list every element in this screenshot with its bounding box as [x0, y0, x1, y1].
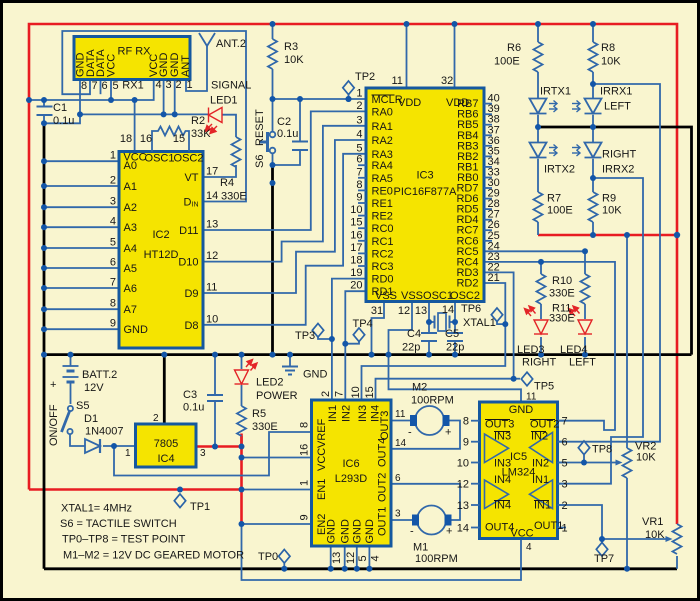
- resistor R10 330E: [581, 274, 590, 304]
- wire: VSS pin12 to ground: [389, 302, 413, 355]
- svg-text:C2: C2: [277, 116, 291, 128]
- svg-text:XTAL1: XTAL1: [463, 317, 496, 329]
- wire: M2 to OUT4: [391, 421, 460, 449]
- svg-text:8: 8: [356, 179, 362, 191]
- wire: TP8 stub: [583, 455, 585, 463]
- svg-text:A1: A1: [124, 181, 137, 193]
- svg-text:IRTX2: IRTX2: [544, 164, 575, 176]
- svg-text:IN3: IN3: [494, 431, 511, 443]
- svg-text:TP4: TP4: [353, 318, 373, 330]
- svg-text:A0: A0: [124, 160, 137, 172]
- svg-text:12: 12: [345, 552, 357, 564]
- svg-text:R8: R8: [601, 42, 615, 54]
- svg-text:ANT: ANT: [180, 55, 192, 77]
- svg-text:22p: 22p: [446, 342, 464, 354]
- wire: RX pin3 GND stub: [163, 80, 165, 115]
- svg-text:R3: R3: [284, 41, 298, 53]
- svg-text:A3: A3: [124, 222, 137, 234]
- IC5 overlines: [485, 420, 555, 501]
- LED LED2 power: [235, 360, 258, 385]
- svg-text:20: 20: [350, 280, 362, 292]
- svg-text:LED4: LED4: [560, 344, 588, 356]
- svg-text:1: 1: [186, 79, 192, 91]
- svg-text:IC5: IC5: [510, 451, 527, 463]
- svg-text:15: 15: [173, 133, 185, 145]
- svg-text:11: 11: [206, 282, 217, 294]
- svg-text:VR1: VR1: [642, 516, 663, 528]
- svg-text:LEFT: LEFT: [569, 357, 596, 369]
- svg-text:OUT4: OUT4: [377, 438, 389, 467]
- wire: TP2 stub: [348, 94, 350, 99]
- svg-text:L293D: L293D: [335, 473, 367, 485]
- svg-text:RC2: RC2: [372, 248, 394, 260]
- wire: R11 bottom to LED3: [540, 304, 542, 319]
- svg-text:TP2: TP2: [355, 71, 375, 83]
- wire: IRRX2 output to LM324 IN1+: [558, 178, 644, 484]
- wire: IRTX1 to IRTX2: [537, 115, 539, 143]
- svg-text:4: 4: [370, 555, 382, 561]
- svg-text:11: 11: [392, 75, 403, 87]
- svg-text:RESET: RESET: [254, 109, 266, 146]
- svg-text:GND: GND: [340, 519, 352, 544]
- svg-text:100RPM: 100RPM: [415, 553, 458, 565]
- wire: D1 cathode to 7805 pin1: [103, 445, 136, 447]
- svg-text:9: 9: [356, 192, 362, 204]
- IC3 bottom pin names: [375, 290, 480, 302]
- switch S6 reset tactile: [270, 132, 276, 138]
- wire: RX pin1 to antenna: [186, 46, 207, 91]
- resistor R5 330E: [237, 406, 246, 436]
- svg-text:10: 10: [350, 204, 362, 216]
- resistor R6 100E: [534, 42, 543, 72]
- IC6 bottom GND names rotated: [326, 519, 377, 544]
- svg-text:2: 2: [562, 500, 568, 512]
- wire: RD1 to L293D IN2: [345, 291, 366, 400]
- svg-text:31: 31: [371, 305, 383, 317]
- svg-text:A6: A6: [124, 283, 137, 295]
- test point TP5: [521, 372, 532, 386]
- svg-text:S6: S6: [254, 155, 266, 168]
- svg-text:A5: A5: [124, 263, 137, 275]
- svg-text:M1–M2 = 12V DC GEARED MOTOR: M1–M2 = 12V DC GEARED MOTOR: [63, 550, 244, 562]
- svg-text:ANT.2: ANT.2: [216, 38, 246, 50]
- svg-text:3: 3: [562, 479, 568, 491]
- svg-text:VSS: VSS: [401, 290, 423, 302]
- svg-text:13: 13: [206, 219, 218, 231]
- svg-text:16: 16: [299, 444, 311, 456]
- wire: RX pin6 data stub: [100, 80, 102, 95]
- svg-text:IC2: IC2: [152, 229, 169, 241]
- svg-text:100E: 100E: [547, 205, 573, 217]
- svg-text:LED1: LED1: [210, 95, 238, 107]
- svg-text:R2: R2: [191, 115, 205, 127]
- svg-text:15: 15: [364, 386, 376, 398]
- wire: R8 top lead: [592, 24, 594, 42]
- svg-text:7: 7: [91, 80, 97, 92]
- svg-text:R10: R10: [552, 275, 572, 287]
- node: regulator output line: [212, 444, 218, 450]
- IC6 top pin names rotated: [327, 405, 382, 422]
- wire: VSS pin31 to ground: [372, 302, 385, 355]
- svg-text:14: 14: [395, 438, 407, 449]
- wire: OUT3 to motor M2: [391, 420, 410, 422]
- wire: TP0 stub: [283, 563, 285, 569]
- IC6 top pin numbers rotated: [320, 386, 376, 398]
- wire: D10 to RA1: [203, 126, 366, 262]
- IC5 right pin stubs: [558, 421, 567, 528]
- IC2 left pin names: [124, 160, 149, 336]
- svg-text:IN2: IN2: [532, 458, 549, 470]
- svg-text:IN2: IN2: [531, 431, 548, 443]
- svg-text:RA1: RA1: [372, 121, 393, 133]
- wire: IRRX2 to R9: [592, 159, 594, 192]
- wire: RX GND line to LED1: [80, 113, 208, 115]
- svg-text:2: 2: [175, 79, 181, 91]
- svg-text:RF RX: RF RX: [118, 46, 152, 58]
- legend text: [60, 503, 244, 562]
- resistor R11 330E: [537, 274, 546, 304]
- wire: R7 bottom to red rail: [537, 222, 539, 235]
- svg-text:A2: A2: [124, 202, 137, 214]
- svg-text:2: 2: [153, 413, 159, 424]
- svg-text:7: 7: [110, 277, 116, 289]
- wire: RC5 pin24 to R10: [484, 251, 585, 274]
- node: test point junctions: [329, 336, 335, 342]
- svg-text:13: 13: [457, 500, 469, 512]
- svg-text:RE0: RE0: [372, 185, 393, 197]
- svg-text:-: -: [408, 427, 412, 439]
- node: red junction right rail: [674, 232, 680, 238]
- R2 left lead to OSC1: [151, 141, 153, 152]
- resistor R2 33K horizontal: [152, 127, 189, 142]
- svg-text:10K: 10K: [601, 56, 621, 68]
- svg-text:330E: 330E: [549, 288, 575, 300]
- svg-text:M1: M1: [413, 542, 428, 554]
- wire: OSC2 lead: [454, 302, 456, 334]
- svg-text:RE2: RE2: [372, 211, 393, 223]
- IR sensor IRRX2: [572, 143, 602, 158]
- wire: TP5 stub: [514, 378, 520, 380]
- svg-text:TP7: TP7: [594, 553, 614, 565]
- IC5 left pin stubs: [471, 421, 480, 528]
- svg-text:TP8: TP8: [592, 444, 612, 456]
- wire: L293D EN1 pin1: [242, 489, 312, 491]
- svg-text:10: 10: [206, 313, 218, 325]
- svg-text:OSC1: OSC1: [145, 153, 175, 165]
- MCLR overline: [372, 94, 395, 96]
- svg-text:GND: GND: [326, 519, 338, 544]
- capacitor C5 22p: [447, 333, 463, 341]
- wire: black right side from IR sensors: [538, 127, 692, 355]
- svg-text:330E: 330E: [252, 421, 278, 433]
- R2 right lead to OSC2: [188, 141, 190, 152]
- wire: LED2 top lead: [241, 355, 243, 369]
- svg-text:OUT4: OUT4: [485, 522, 514, 534]
- svg-text:SIGNAL: SIGNAL: [211, 80, 251, 92]
- battery BATT.2: [63, 366, 79, 382]
- IC2 left pin numbers: [110, 150, 116, 330]
- svg-text:OUT1: OUT1: [377, 507, 389, 536]
- node: bottom rail junctions: [328, 566, 334, 572]
- test point TP6: [491, 308, 502, 322]
- svg-text:D9: D9: [184, 288, 198, 300]
- svg-text:RIGHT: RIGHT: [522, 357, 557, 369]
- svg-text:6: 6: [562, 437, 568, 449]
- svg-text:15: 15: [350, 217, 362, 229]
- svg-text:RC0: RC0: [372, 223, 394, 235]
- svg-text:EN1: EN1: [316, 479, 328, 500]
- node: D1 cathode: [111, 443, 117, 449]
- wire: black GND main rail: [44, 353, 692, 356]
- capacitor C3 0.1u: [207, 395, 223, 401]
- wire: M1 to OUT2: [391, 484, 460, 520]
- svg-text:8: 8: [81, 80, 87, 92]
- svg-text:+: +: [446, 526, 452, 538]
- svg-text:6: 6: [395, 473, 401, 484]
- svg-text:1: 1: [299, 480, 311, 486]
- wire: black left GND column: [43, 123, 46, 569]
- svg-text:11: 11: [526, 392, 537, 403]
- svg-text:5: 5: [112, 80, 118, 92]
- svg-text:19: 19: [350, 267, 362, 279]
- wire: LM324 GND pin11: [389, 355, 522, 402]
- capacitor C2 0.1u: [292, 142, 308, 151]
- svg-text:TP0: TP0: [258, 551, 278, 563]
- preset VR1 10K: [673, 524, 682, 554]
- svg-text:12: 12: [206, 250, 218, 262]
- wire: IRTX2 to R7: [537, 159, 539, 192]
- resistor R3 10K: [268, 39, 277, 69]
- IR LED IRTX2: [530, 143, 558, 158]
- wire: R4 top to LED1: [222, 115, 236, 137]
- wire: IC3 VDD pin11 to +5V: [406, 24, 408, 88]
- svg-text:GND: GND: [352, 519, 364, 544]
- svg-text:4: 4: [356, 129, 362, 141]
- wire: red +5V from 7805 output: [196, 445, 242, 448]
- svg-text:4: 4: [155, 79, 161, 91]
- svg-text:GND: GND: [364, 519, 376, 544]
- wire: red vertical R5/EN rail: [240, 434, 243, 525]
- svg-text:16: 16: [140, 133, 152, 145]
- wire: red IR emitter supply rail: [538, 234, 677, 237]
- svg-text:R5: R5: [252, 408, 266, 420]
- wire: C4 bottom to rail: [428, 341, 430, 355]
- wire: D11 to RA0: [203, 111, 366, 230]
- svg-text:+: +: [50, 379, 56, 391]
- svg-text:14: 14: [457, 523, 469, 535]
- svg-text:4: 4: [526, 542, 532, 553]
- wire: RD0 to L293D IN1: [332, 279, 366, 400]
- RF RX pin names: [75, 49, 193, 77]
- svg-text:6: 6: [101, 80, 107, 92]
- svg-text:3: 3: [200, 448, 206, 459]
- svg-text:9: 9: [463, 437, 469, 449]
- wire: battery top lead: [70, 355, 72, 366]
- wire: L293D EN2 pin9: [242, 523, 312, 525]
- wire: TP3 stub: [318, 337, 332, 340]
- test point TP2: [343, 81, 354, 95]
- VR1 wiper arrow: [666, 536, 673, 542]
- ground symbol: [282, 367, 298, 375]
- wire: C2 bottom lead to S6 line: [273, 150, 301, 165]
- wire: LED2 to R5: [241, 385, 243, 406]
- wire: R5 bottom lead red: [240, 436, 243, 447]
- svg-text:0.1u: 0.1u: [277, 128, 298, 140]
- svg-text:5: 5: [562, 458, 568, 470]
- svg-text:ON/OFF: ON/OFF: [48, 404, 60, 446]
- svg-text:D10: D10: [178, 257, 198, 269]
- wire: IRRX1 to IRRX2: [592, 115, 594, 143]
- IC3 right pin numbers: [488, 93, 500, 284]
- IC3 left pin stubs: [358, 165, 366, 266]
- wire: R3 leads: [272, 24, 274, 39]
- svg-text:R7: R7: [547, 193, 561, 205]
- svg-text:A4: A4: [124, 243, 137, 255]
- svg-text:IRRX1: IRRX1: [600, 86, 632, 98]
- test point TP4: [353, 328, 364, 342]
- node: IR chain junctions: [535, 124, 541, 130]
- svg-text:10: 10: [350, 386, 362, 398]
- svg-text:OSC2: OSC2: [450, 290, 480, 302]
- wire: R6 bottom to IRTX1: [537, 72, 539, 99]
- svg-text:330E: 330E: [221, 191, 247, 203]
- node: MCLR line: [270, 96, 276, 102]
- svg-text:4: 4: [110, 216, 116, 228]
- IC6 right pin names rotated: [377, 411, 392, 536]
- wire: R11 top lead: [540, 262, 542, 274]
- svg-text:7: 7: [562, 416, 568, 428]
- wire: D9 to RA2: [203, 140, 366, 293]
- svg-text:VT: VT: [184, 172, 198, 184]
- svg-text:IRTX1: IRTX1: [540, 86, 571, 98]
- wire: IC2 VCC pin18 lead: [134, 100, 136, 152]
- preset VR2 10K: [623, 448, 632, 478]
- svg-text:3: 3: [395, 509, 401, 520]
- svg-text:IC6: IC6: [342, 458, 359, 470]
- svg-text:1N4007: 1N4007: [85, 426, 124, 438]
- wire: L293D GND stubs to bottom rail: [331, 546, 370, 569]
- svg-text:OUT2: OUT2: [530, 419, 559, 431]
- svg-text:14: 14: [442, 304, 454, 316]
- resistor R4 330E: [232, 137, 241, 167]
- wire: S5 to D1: [70, 434, 85, 446]
- svg-text:5: 5: [356, 142, 362, 154]
- RF RX pin numbers: [81, 79, 193, 92]
- svg-text:33K: 33K: [191, 128, 211, 140]
- wire: OUT1 to motor M1: [391, 519, 412, 521]
- svg-text:R4: R4: [220, 177, 234, 189]
- svg-text:10: 10: [457, 458, 469, 470]
- svg-text:12V: 12V: [84, 382, 104, 394]
- svg-text:12: 12: [457, 479, 469, 491]
- test point TP7: [596, 543, 607, 557]
- test point TP8: [578, 441, 589, 455]
- svg-text:11: 11: [395, 409, 406, 420]
- svg-text:IC4: IC4: [157, 453, 174, 465]
- LED LED1 signal: [205, 108, 222, 134]
- VR2 wiper arrow: [615, 462, 620, 464]
- resistor R7 100E: [534, 192, 543, 222]
- motor driver IC6 L293D: [312, 400, 392, 546]
- svg-text:RD2: RD2: [456, 278, 478, 290]
- switch S5 on/off: [68, 406, 73, 411]
- wire: D1 node to L293D VREF: [114, 432, 312, 476]
- svg-text:C5: C5: [445, 328, 459, 340]
- svg-text:D11: D11: [179, 225, 198, 237]
- wire: MCLR line: [273, 98, 367, 100]
- svg-text:IN3: IN3: [357, 405, 369, 422]
- microcontroller IC3 PIC16F877A: [366, 88, 484, 302]
- IC3 right pin stubs: [484, 104, 492, 241]
- svg-text:22p: 22p: [402, 342, 420, 354]
- wire: R10 bottom to LED4: [584, 304, 586, 319]
- svg-text:IN1: IN1: [534, 500, 551, 512]
- IR LED IRTX1: [530, 99, 558, 114]
- wire: R9 bottom to red rail: [592, 222, 594, 235]
- wire: RD3 pin22 to L293D IN4: [376, 272, 514, 400]
- svg-text:13: 13: [415, 305, 427, 317]
- svg-text:7: 7: [334, 391, 346, 397]
- svg-text:S5: S5: [76, 400, 89, 412]
- svg-text:IN4: IN4: [494, 474, 511, 486]
- svg-text:-: -: [410, 526, 414, 538]
- svg-text:13: 13: [331, 552, 343, 564]
- svg-text:1: 1: [356, 88, 362, 100]
- wire: VR2 bottom to bottom rail: [626, 478, 628, 569]
- node: +5V rail junctions: [270, 21, 276, 27]
- wire: battery to S5: [70, 382, 72, 404]
- op-amp triangles inside LM324: [485, 433, 553, 509]
- svg-text:RA5: RA5: [372, 173, 393, 185]
- svg-text:OUT1: OUT1: [534, 520, 563, 532]
- IC5 pin numbers: [457, 416, 469, 535]
- svg-text:0.1u: 0.1u: [53, 115, 74, 127]
- svg-text:LED3: LED3: [517, 344, 545, 356]
- svg-text:10K: 10K: [602, 205, 622, 217]
- svg-text:R6: R6: [507, 42, 521, 54]
- wire: R8 bottom to IRRX1: [592, 72, 594, 99]
- antenna ANT.2: [199, 33, 215, 46]
- svg-text:RIGHT: RIGHT: [602, 149, 637, 161]
- node: C2/S6 junction: [270, 162, 276, 168]
- test point TP1: [174, 494, 185, 508]
- IC2 right pin names: [178, 172, 198, 332]
- svg-text:GND: GND: [509, 404, 534, 416]
- svg-text:330E: 330E: [549, 313, 575, 325]
- wire: LED4 cathode to rail: [584, 337, 586, 355]
- wire: C3 top lead: [214, 355, 216, 395]
- IC6 left pin names rotated: [316, 418, 328, 535]
- svg-text:OSC2: OSC2: [174, 153, 204, 165]
- test point TP0: [279, 550, 290, 564]
- svg-text:MCLR: MCLR: [372, 94, 403, 106]
- svg-text:TP0–TP8 = TEST POINT: TP0–TP8 = TEST POINT: [62, 534, 186, 546]
- wire: LM324 pin5 to VR2 wiper: [558, 462, 616, 464]
- svg-text:RA2: RA2: [372, 135, 393, 147]
- motor M1: [417, 506, 446, 535]
- svg-text:3: 3: [165, 79, 171, 91]
- svg-text:8: 8: [463, 416, 469, 428]
- svg-text:10K: 10K: [636, 452, 656, 464]
- wire: D8 to RA3: [203, 154, 366, 325]
- decoder IC2 HT12D: [119, 152, 203, 349]
- capacitor C4 22p: [421, 333, 437, 341]
- svg-text:+: +: [445, 427, 451, 439]
- wire: RD2 pin21 to L293D IN3: [362, 283, 506, 400]
- svg-text:TP3: TP3: [295, 330, 315, 342]
- svg-text:GND: GND: [124, 324, 149, 336]
- svg-text:TP6: TP6: [461, 303, 481, 315]
